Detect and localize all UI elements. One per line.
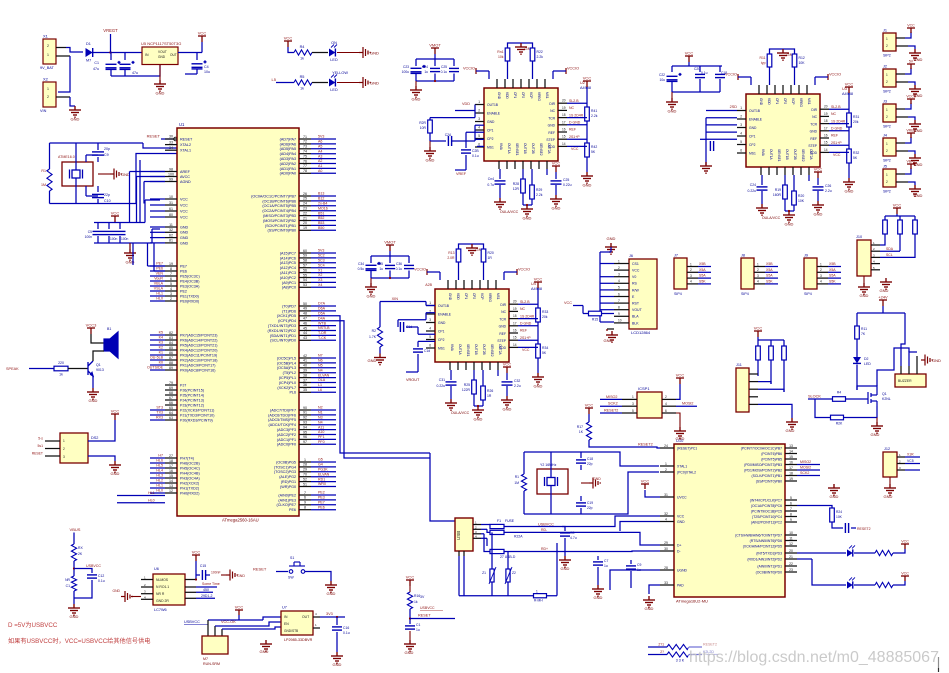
svg-text:VCC: VCC xyxy=(180,215,188,219)
wire xyxy=(706,110,737,112)
wire xyxy=(908,182,915,185)
svg-text:2: 2 xyxy=(665,395,667,399)
svg-text:GND: GND xyxy=(583,183,592,188)
pin left xyxy=(475,146,484,148)
wire xyxy=(74,580,92,598)
svg-text:Some Time: Some Time xyxy=(202,582,220,586)
wire xyxy=(481,537,487,539)
svg-text:66: 66 xyxy=(169,401,173,405)
svg-text:62: 62 xyxy=(169,233,173,237)
capacitor C21 xyxy=(719,66,721,72)
svg-text:8: 8 xyxy=(790,512,792,516)
wire xyxy=(518,325,538,327)
wire xyxy=(410,618,455,620)
wire xyxy=(586,87,588,107)
svg-text:GND: GND xyxy=(370,51,379,56)
svg-text:OUT2B: OUT2B xyxy=(531,143,535,154)
pin 46 (TXD1/INT3)PD3 xyxy=(299,325,311,327)
wire xyxy=(311,504,336,506)
pin top xyxy=(544,79,546,88)
wire xyxy=(854,552,875,554)
svg-text:GND: GND xyxy=(333,662,342,667)
pin 2 PE0(RXD0) xyxy=(165,300,177,302)
wire xyxy=(129,172,131,223)
transistor Q2 MOSFET xyxy=(868,390,877,406)
svg-text:(SCL/INT0)PD0: (SCL/INT0)PD0 xyxy=(270,339,296,343)
wire xyxy=(784,175,786,185)
svg-text:MOSI2: MOSI2 xyxy=(682,401,693,405)
svg-text:(RXD1/INT2)PD2: (RXD1/INT2)PD2 xyxy=(268,329,296,333)
wire xyxy=(808,175,810,181)
svg-text:(XCK/AIN4/PCINT12)PD5: (XCK/AIN4/PCINT12)PD5 xyxy=(743,544,782,548)
wire xyxy=(150,414,165,416)
svg-text:VCC: VCC xyxy=(564,301,572,305)
pin 33 XTAL2 xyxy=(165,144,177,146)
wire xyxy=(600,302,614,304)
pin xyxy=(458,551,460,556)
svg-text:LED: LED xyxy=(330,58,338,62)
svg-text:2?: 2? xyxy=(660,650,664,654)
svg-text:(A10)PC2: (A10)PC2 xyxy=(280,276,296,280)
resistor R19 xyxy=(783,185,788,199)
svg-text:(ADC2)PF2: (ADC2)PF2 xyxy=(277,433,296,437)
wire xyxy=(581,472,659,514)
svg-text:2: 2 xyxy=(665,468,667,472)
ground xyxy=(466,244,478,255)
pin xyxy=(896,142,905,144)
resistor R29b xyxy=(667,644,689,649)
pin xyxy=(473,533,481,535)
wire xyxy=(311,386,336,388)
svg-text:TCR: TCR xyxy=(810,122,817,126)
wire xyxy=(150,295,165,297)
wire xyxy=(336,316,430,453)
svg-text:79: 79 xyxy=(169,381,173,385)
svg-text:30: 30 xyxy=(169,135,173,139)
ground xyxy=(858,283,870,294)
wire xyxy=(207,620,209,636)
ground xyxy=(331,652,343,663)
svg-text:16: 16 xyxy=(562,128,566,132)
svg-text:9: 9 xyxy=(304,501,306,505)
svg-text:(OC1A/PCINT5)PB5: (OC1A/PCINT5)PB5 xyxy=(262,204,296,208)
svg-text:J7: J7 xyxy=(674,254,678,258)
svg-text:17: 17 xyxy=(824,126,828,130)
svg-text:(A14)PC6: (A14)PC6 xyxy=(280,256,296,260)
pin left xyxy=(426,339,435,341)
svg-text:5V: 5V xyxy=(909,60,914,64)
svg-text:(ICP4)PL0: (ICP4)PL0 xyxy=(279,381,296,385)
svg-text:GND: GND xyxy=(121,172,130,177)
ground xyxy=(69,106,81,117)
svg-text:63: 63 xyxy=(169,416,173,420)
capacitor C35 xyxy=(389,256,391,263)
wire xyxy=(889,477,891,484)
svg-text:(AIN2/PCINT11)PC2: (AIN2/PCINT11)PC2 xyxy=(751,520,782,524)
svg-text:C16: C16 xyxy=(343,626,349,630)
wire xyxy=(550,452,552,478)
svg-text:97: 97 xyxy=(303,440,307,444)
pin xyxy=(896,45,908,47)
svg-text:VCC: VCC xyxy=(845,82,854,87)
svg-text:U6: U6 xyxy=(154,567,159,571)
wire xyxy=(880,256,915,258)
svg-text:C36: C36 xyxy=(396,262,402,266)
svg-text:0.7u: 0.7u xyxy=(487,183,494,187)
svg-text:OUT1B: OUT1B xyxy=(487,103,499,107)
svg-text:GND: GND xyxy=(412,97,421,102)
svg-text:R5: R5 xyxy=(300,75,305,79)
svg-text:R22: R22 xyxy=(537,50,543,54)
svg-text:1: 1 xyxy=(740,106,742,110)
pin 74 (AD4)PA4 xyxy=(299,153,311,155)
svg-text:4: 4 xyxy=(478,126,480,130)
svg-text:2.2k: 2.2k xyxy=(536,193,543,197)
pin left xyxy=(737,110,746,112)
wire xyxy=(504,531,540,533)
svg-text:X1R: X1R xyxy=(907,453,914,457)
svg-text:PJ0(RXD3/PCINT9): PJ0(RXD3/PCINT9) xyxy=(180,418,213,422)
svg-text:PE7: PE7 xyxy=(156,262,163,266)
pin right xyxy=(820,151,829,153)
wire xyxy=(905,469,920,471)
pin bottom xyxy=(522,161,524,169)
svg-text:1: 1 xyxy=(886,142,888,146)
pin 30 RESET xyxy=(165,138,177,140)
pin top xyxy=(536,79,538,88)
svg-text:typ: typ xyxy=(761,61,766,65)
svg-text:GND: GND xyxy=(677,520,685,524)
svg-text:FUSE: FUSE xyxy=(505,519,515,523)
wire xyxy=(221,574,226,576)
svg-text:R28: R28 xyxy=(513,182,519,186)
svg-text:PAD: PAD xyxy=(677,583,684,587)
wire xyxy=(311,277,336,279)
resistor R7 xyxy=(71,544,76,561)
svg-text:F1: F1 xyxy=(497,519,501,523)
wire xyxy=(276,82,294,84)
ground xyxy=(674,427,686,438)
pin bottom xyxy=(498,161,500,169)
pin top xyxy=(798,85,800,94)
svg-text:(ADC0)PF0: (ADC0)PF0 xyxy=(277,443,296,447)
svg-text:6: 6 xyxy=(790,501,792,505)
svg-text:6: 6 xyxy=(304,496,306,500)
pin 18 (SCLK/PCINT1)PB1 xyxy=(785,475,797,477)
resistor R18 xyxy=(523,452,525,474)
pin 93 (ADC4/TCK)PF4 xyxy=(299,424,311,426)
svg-text:5K: 5K xyxy=(853,156,858,160)
wire xyxy=(758,382,771,384)
pin 11 (RTS/AIN5/INT6)PD6 xyxy=(785,540,797,542)
svg-text:33: 33 xyxy=(169,140,173,144)
wire xyxy=(846,398,869,400)
pin xyxy=(817,277,828,279)
svg-text:31: 31 xyxy=(664,493,668,497)
svg-text:17: 17 xyxy=(169,464,173,468)
svg-text:71: 71 xyxy=(303,135,307,139)
wire xyxy=(434,54,436,59)
svg-text:(AD1)PA1: (AD1)PA1 xyxy=(280,167,296,171)
pin xyxy=(749,403,758,405)
wire xyxy=(150,492,165,494)
svg-text:10R: 10R xyxy=(420,126,427,130)
wire xyxy=(689,646,702,648)
pin left xyxy=(737,152,746,154)
svg-text:GND: GND xyxy=(158,55,166,59)
resistor R15 xyxy=(589,311,602,316)
pin 51 (WR)PG0 xyxy=(299,486,311,488)
svg-text:OUT: OUT xyxy=(170,53,177,57)
svg-text:GND: GND xyxy=(180,225,189,229)
pin 7 PE5(OC3C) xyxy=(165,275,177,277)
wire xyxy=(196,597,215,599)
pin top xyxy=(520,79,522,88)
svg-text:72: 72 xyxy=(303,140,307,144)
svg-text:20: 20 xyxy=(789,549,793,553)
ground xyxy=(581,482,589,484)
svg-text:4: 4 xyxy=(665,517,667,521)
svg-text:U7: U7 xyxy=(282,606,287,610)
pin 9 BLA xyxy=(614,315,629,317)
ground xyxy=(843,178,855,189)
pin 63 PJ0(RXD3/PCINT9) xyxy=(165,419,177,421)
svg-text:15: 15 xyxy=(824,141,828,145)
wire xyxy=(150,462,165,464)
pin 9 (CLKO)PE7 xyxy=(299,504,311,506)
svg-text:2: 2 xyxy=(820,268,822,272)
wire xyxy=(380,301,399,303)
wire xyxy=(540,550,660,553)
svg-text:R11: R11 xyxy=(861,327,867,331)
pin right xyxy=(662,412,676,414)
svg-text:PH1(TXD2): PH1(TXD2) xyxy=(180,486,199,490)
svg-text:28: 28 xyxy=(664,566,668,570)
wire xyxy=(458,262,460,280)
wire xyxy=(311,281,336,283)
capacitor C6 xyxy=(108,223,110,230)
svg-text:(TOSC1)PG4: (TOSC1)PG4 xyxy=(274,465,296,469)
wire xyxy=(311,494,336,496)
svg-text:LC7W6: LC7W6 xyxy=(154,608,167,612)
svg-text:70: 70 xyxy=(303,473,307,477)
wire xyxy=(196,574,200,576)
svg-text:C31: C31 xyxy=(439,378,445,382)
svg-text:35: 35 xyxy=(303,388,307,392)
pin top xyxy=(496,79,498,88)
pin right xyxy=(509,318,518,320)
pin 67 PJ4(PCINT13) xyxy=(165,399,177,401)
pin right xyxy=(558,109,567,111)
svg-text:C25: C25 xyxy=(563,178,569,182)
svg-text:https://blog.csdn.net/m0_48885: https://blog.csdn.net/m0_48885067 xyxy=(689,649,939,666)
svg-text:3: 3 xyxy=(170,292,172,296)
svg-text:28: 28 xyxy=(303,463,307,467)
svg-text:2?1: 2?1 xyxy=(658,643,664,647)
resistor R12 xyxy=(792,54,797,67)
svg-text:S5K: S5K xyxy=(699,280,706,284)
wire xyxy=(600,263,614,265)
wire xyxy=(506,373,508,380)
svg-text:14: 14 xyxy=(562,142,566,146)
svg-text:36: 36 xyxy=(303,383,307,387)
pin 2 (PC0)XTAL2 xyxy=(660,471,674,473)
wire xyxy=(311,330,336,332)
wire xyxy=(206,574,210,576)
svg-text:GND: GND xyxy=(914,57,923,62)
svg-text:21: 21 xyxy=(303,216,307,220)
svg-text:SIP2: SIP2 xyxy=(883,125,891,129)
wire xyxy=(848,93,850,113)
svg-text:VCC: VCC xyxy=(571,147,579,151)
svg-text:19: 19 xyxy=(824,112,828,116)
svg-text:GND: GND xyxy=(860,293,869,298)
svg-text:VCC: VCC xyxy=(111,409,120,414)
wire xyxy=(540,532,660,545)
svg-text:REF: REF xyxy=(831,134,838,138)
svg-text:4: 4 xyxy=(665,402,667,406)
wire xyxy=(896,214,898,216)
svg-text:1u: 1u xyxy=(637,568,641,572)
wire xyxy=(562,516,660,527)
wire xyxy=(848,163,850,178)
pin 62 GND xyxy=(165,237,177,239)
wire xyxy=(901,313,905,366)
svg-text:2: 2 xyxy=(63,447,65,451)
svg-text:GND: GND xyxy=(561,566,570,571)
wire xyxy=(769,67,771,85)
pin top xyxy=(504,79,506,88)
svg-text:GND: GND xyxy=(474,417,483,422)
pin 15 (PCINT5)PB5 xyxy=(785,458,797,460)
pin xyxy=(900,366,902,374)
svg-text:26: 26 xyxy=(303,192,307,196)
svg-text:VCC: VCC xyxy=(198,31,207,36)
svg-text:11: 11 xyxy=(169,223,173,227)
svg-text:VouR: VouR xyxy=(154,277,163,281)
pin right xyxy=(509,332,518,334)
svg-text:64: 64 xyxy=(169,411,173,415)
svg-text:MS1: MS1 xyxy=(749,152,756,156)
ground xyxy=(909,85,921,96)
svg-text:PE6: PE6 xyxy=(156,267,163,271)
svg-text:VCCIO: VCCIO xyxy=(414,268,426,272)
svg-text:3: 3 xyxy=(429,318,431,322)
svg-text:0.1u: 0.1u xyxy=(701,71,708,75)
svg-text:X3: X3 xyxy=(318,278,322,282)
svg-text:VREF: VREF xyxy=(906,129,915,133)
pin 6 (AIN1)PE3 xyxy=(299,499,311,501)
svg-text:122R: 122R xyxy=(462,388,471,392)
wire xyxy=(370,278,372,283)
resistor R5 xyxy=(294,80,312,85)
svg-text:VCC: VCC xyxy=(814,167,823,172)
svg-text:5: 5 xyxy=(618,286,620,290)
svg-text:2S1+P: 2S1+P xyxy=(831,141,842,145)
pin 8 (T2S/PCINT10)PC4 xyxy=(785,516,797,518)
pin right xyxy=(558,102,567,104)
svg-text:X5A: X5A xyxy=(699,268,706,272)
pin 90 (ADC7/TDI)PF7 xyxy=(299,409,311,411)
svg-text:SENSE1: SENSE1 xyxy=(515,143,519,156)
ground xyxy=(909,120,921,131)
svg-text:100n: 100n xyxy=(121,237,129,241)
svg-text:GND: GND xyxy=(89,398,98,403)
pin top xyxy=(758,85,760,94)
wire xyxy=(150,369,165,371)
svg-text:NC: NC xyxy=(501,310,506,314)
svg-text:RD1: RD1 xyxy=(318,477,325,481)
svg-text:1k: 1k xyxy=(300,87,304,91)
svg-text:C18: C18 xyxy=(721,71,727,75)
svg-text:OULA/VCC: OULA/VCC xyxy=(500,210,519,214)
svg-text:2: 2 xyxy=(886,115,888,119)
wire xyxy=(905,168,911,174)
svg-text:10: 10 xyxy=(618,319,622,323)
wire xyxy=(150,285,165,287)
svg-text:GND: GND xyxy=(814,212,823,217)
pin 10 (CTS/HWB/AIN6/TO/INT7)PD7 xyxy=(785,534,797,536)
svg-text:99: 99 xyxy=(169,177,173,181)
svg-text:VCC: VCC xyxy=(180,203,188,207)
svg-text:HL6: HL6 xyxy=(156,459,163,463)
pin bottom xyxy=(546,161,548,169)
pin xyxy=(185,591,196,593)
wire xyxy=(765,283,778,285)
svg-text:LED: LED xyxy=(330,88,338,92)
wire xyxy=(416,80,454,82)
pin 34 XTAL1 xyxy=(165,149,177,151)
svg-text:C7: C7 xyxy=(604,559,608,563)
svg-text:100nF: 100nF xyxy=(211,571,221,575)
wire xyxy=(75,143,77,170)
svg-text:29D1-2: 29D1-2 xyxy=(201,594,213,598)
svg-text:75: 75 xyxy=(303,154,307,158)
svg-text:USBVCC: USBVCC xyxy=(420,606,435,610)
pin xyxy=(141,598,153,600)
capacitor C31 xyxy=(446,382,457,385)
wire xyxy=(815,399,830,418)
pin 14 (PCINT6)PB6 xyxy=(785,453,797,455)
resistor R42 xyxy=(585,143,590,157)
wire xyxy=(546,169,548,175)
wire xyxy=(567,138,587,140)
ground xyxy=(109,461,121,472)
pin 5 (INT4/ICP1/CLK)PC7 xyxy=(785,499,797,501)
svg-text:1u: 1u xyxy=(604,564,608,568)
svg-text:GND 2R: GND 2R xyxy=(156,599,169,603)
wire xyxy=(311,310,336,312)
wire xyxy=(430,453,455,521)
resistor R22 xyxy=(481,533,484,535)
wire xyxy=(409,586,411,592)
svg-text:(OC5B)PL4: (OC5B)PL4 xyxy=(277,361,296,365)
svg-text:STEP: STEP xyxy=(808,144,817,148)
pin 56 (A11)PC3 xyxy=(299,272,311,274)
pin 81 GND xyxy=(165,242,177,244)
svg-text:45X: 45X xyxy=(203,588,210,592)
svg-text:HL0: HL0 xyxy=(156,297,163,301)
svg-text:C26: C26 xyxy=(825,184,831,188)
svg-text:VOUT: VOUT xyxy=(158,50,167,54)
pin 54 (A9)PC1 xyxy=(299,281,311,283)
svg-text:5: 5 xyxy=(740,140,742,144)
ground xyxy=(260,640,272,651)
svg-text:X5B: X5B xyxy=(766,262,773,266)
svg-text:4.7u: 4.7u xyxy=(570,536,577,540)
wire xyxy=(311,200,336,202)
svg-text:1R: 1R xyxy=(487,394,492,398)
